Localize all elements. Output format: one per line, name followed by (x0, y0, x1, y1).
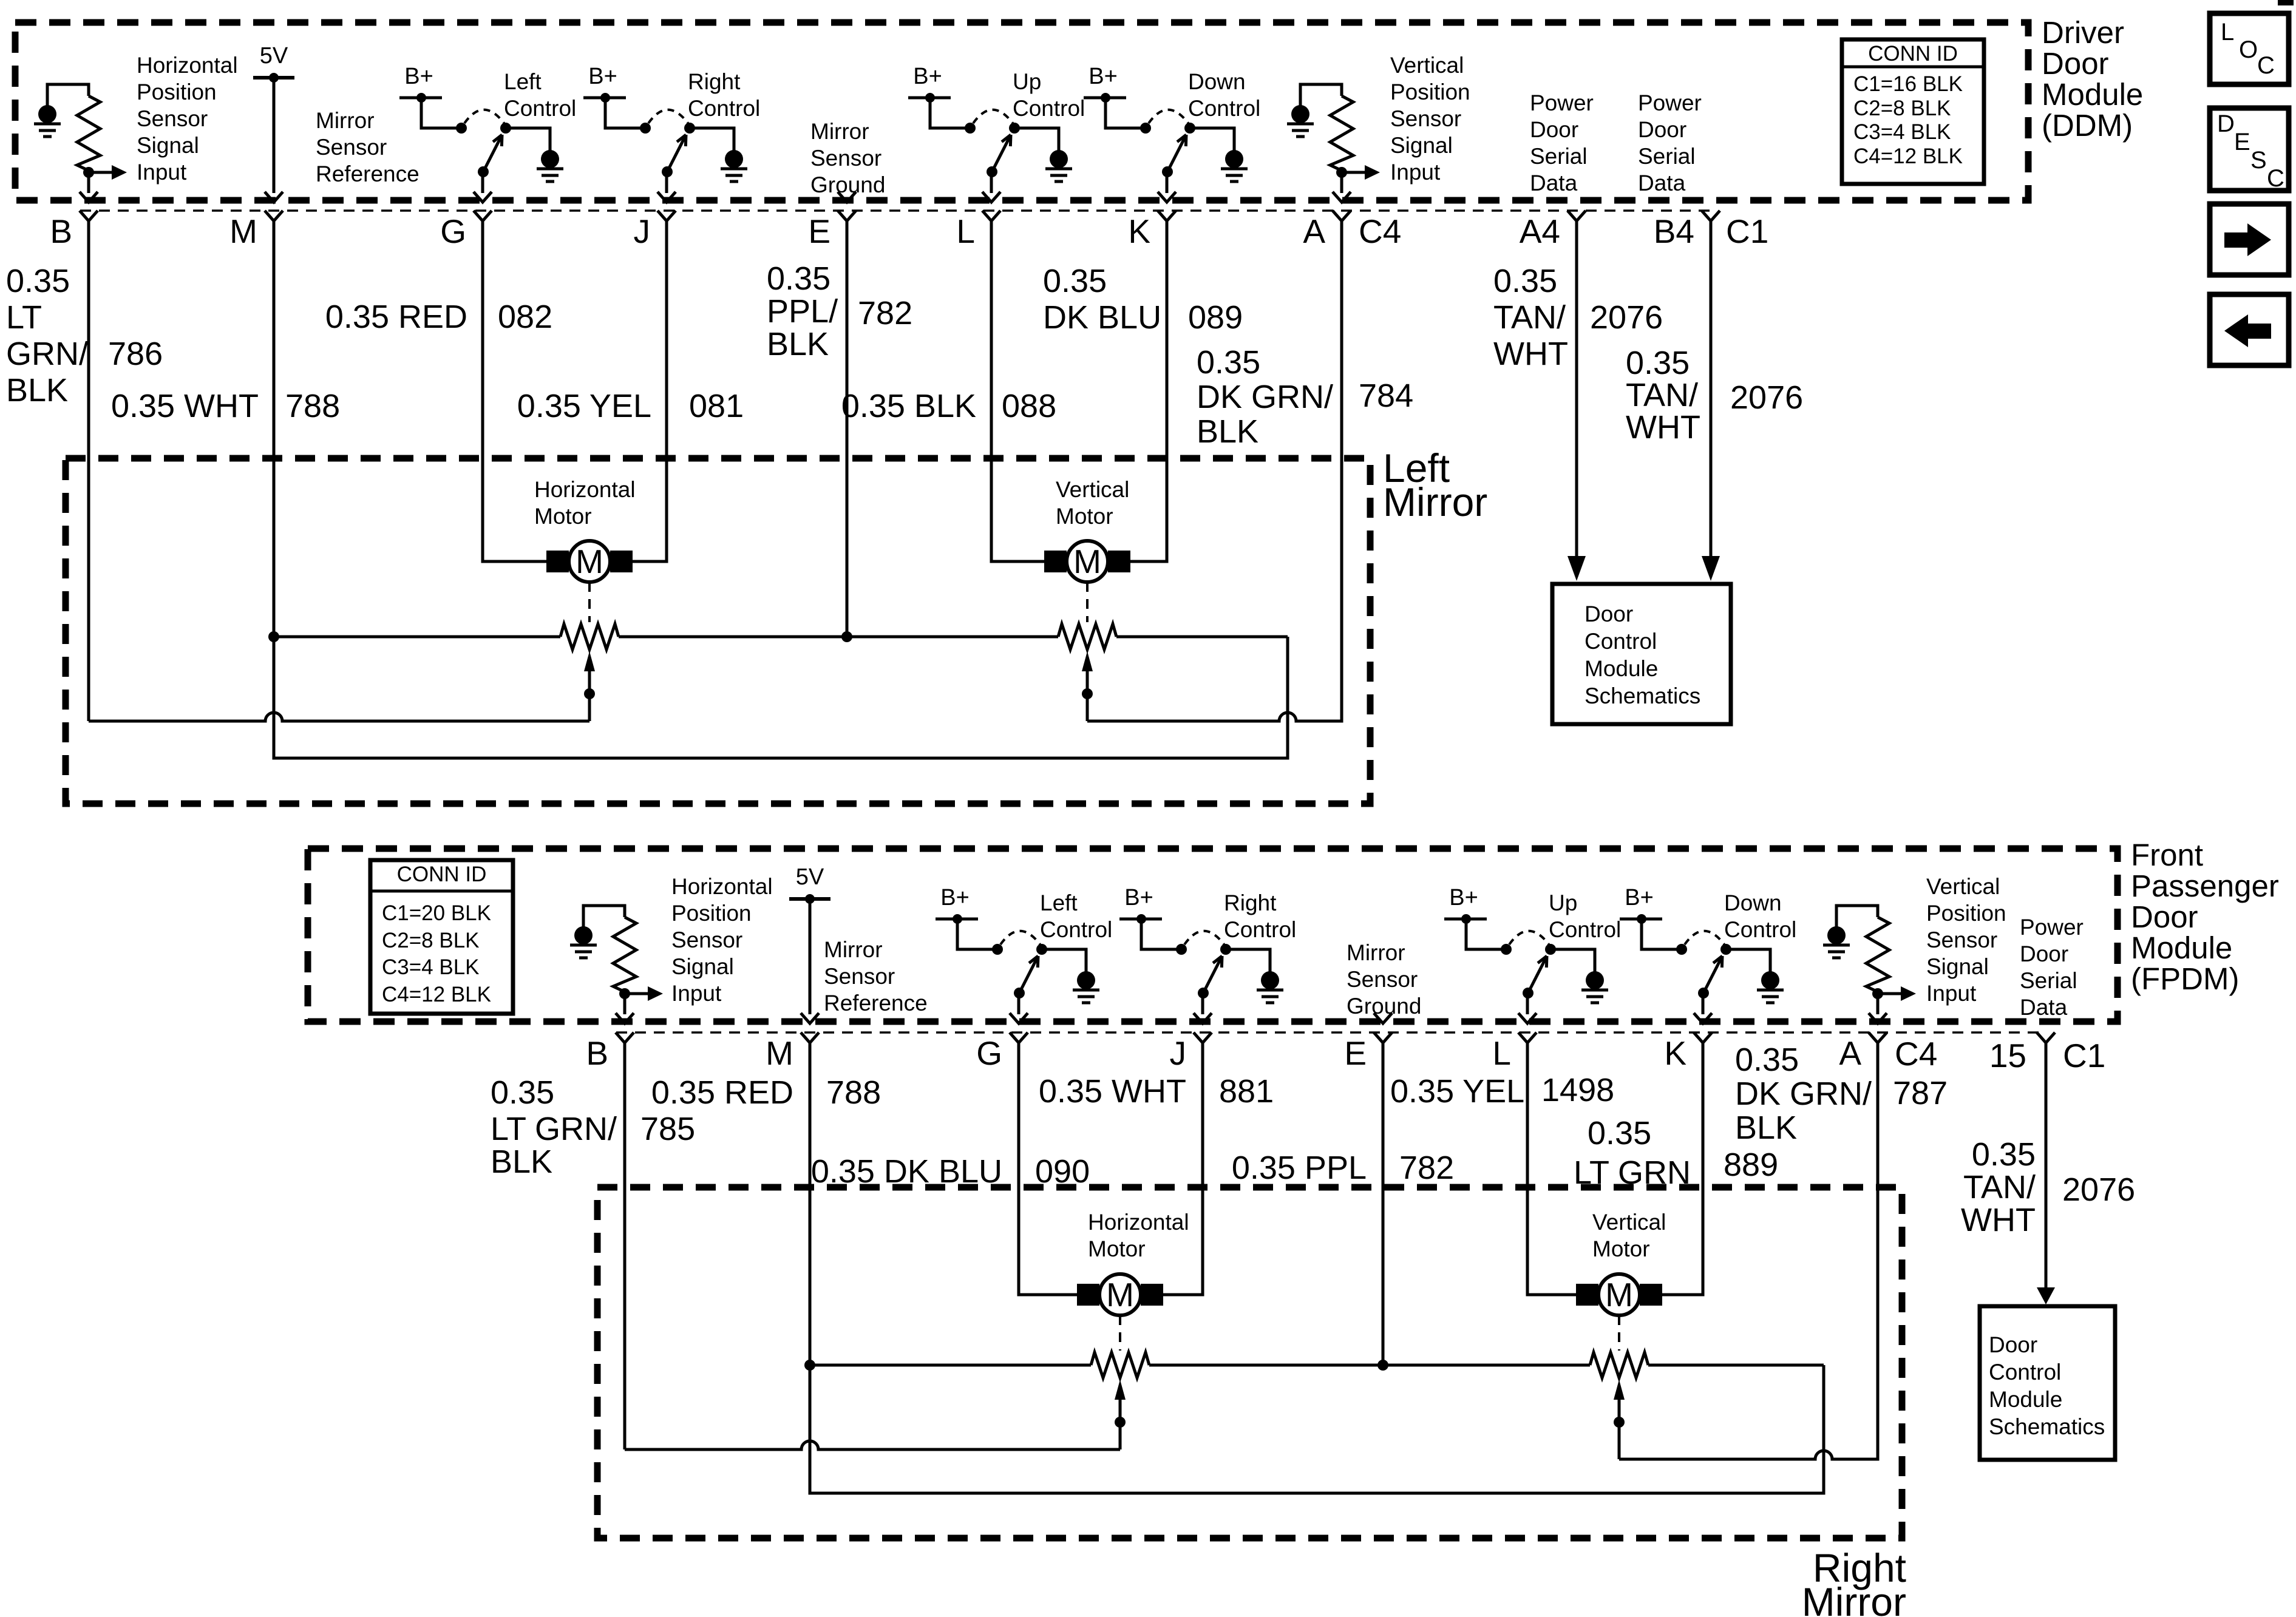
svg-text:B+: B+ (1124, 885, 1153, 910)
svg-text:0.35: 0.35 (1972, 1136, 2036, 1173)
svg-text:C1=20 BLK: C1=20 BLK (382, 901, 491, 925)
svg-text:Left: Left (1040, 890, 1078, 915)
svg-text:DK GRN/: DK GRN/ (1735, 1076, 1872, 1112)
svg-text:Motor: Motor (1056, 504, 1113, 529)
svg-text:088: 088 (1002, 388, 1056, 424)
svg-text:C1=16 BLK: C1=16 BLK (1853, 72, 1963, 96)
svg-text:Module: Module (1989, 1387, 2062, 1412)
svg-text:A: A (1839, 1034, 1861, 1072)
svg-text:G: G (976, 1034, 1002, 1072)
svg-text:0.35: 0.35 (1197, 344, 1260, 381)
svg-text:C4=12 BLK: C4=12 BLK (1853, 144, 1963, 168)
svg-text:Down: Down (1724, 890, 1782, 915)
svg-text:Door: Door (1530, 117, 1578, 142)
svg-text:E: E (2234, 129, 2250, 155)
svg-text:(FPDM): (FPDM) (2131, 961, 2239, 996)
svg-text:CONN ID: CONN ID (397, 863, 487, 886)
svg-text:M: M (1073, 543, 1101, 580)
svg-text:Mirror: Mirror (810, 119, 869, 144)
svg-text:C: C (2267, 165, 2284, 192)
svg-text:K: K (1128, 212, 1150, 250)
svg-text:0.35: 0.35 (1493, 263, 1557, 299)
svg-text:Serial: Serial (2020, 968, 2077, 993)
svg-text:GRN/: GRN/ (6, 336, 88, 372)
svg-text:089: 089 (1188, 299, 1243, 336)
svg-text:M: M (576, 543, 603, 580)
svg-text:WHT: WHT (1493, 336, 1568, 372)
svg-text:0.35 WHT: 0.35 WHT (111, 388, 259, 424)
svg-text:Position: Position (1390, 80, 1470, 104)
svg-text:Sensor: Sensor (137, 106, 208, 131)
svg-text:0.35 YEL: 0.35 YEL (1390, 1073, 1524, 1110)
svg-text:B+: B+ (940, 885, 970, 910)
svg-text:L: L (1492, 1034, 1511, 1072)
svg-text:Control: Control (1584, 629, 1657, 654)
svg-text:Input: Input (1390, 160, 1441, 185)
svg-text:L: L (956, 212, 975, 250)
svg-text:Control: Control (1549, 917, 1621, 942)
svg-text:C1: C1 (1726, 212, 1768, 250)
svg-text:Horizontal: Horizontal (671, 874, 773, 899)
svg-text:B+: B+ (404, 64, 433, 89)
svg-text:Passenger: Passenger (2131, 869, 2279, 903)
svg-text:O: O (2239, 36, 2258, 63)
svg-text:B: B (586, 1034, 608, 1072)
svg-text:Right: Right (1224, 890, 1277, 915)
svg-text:782: 782 (858, 295, 912, 331)
svg-text:DK GRN/: DK GRN/ (1197, 379, 1333, 415)
svg-text:082: 082 (498, 299, 552, 335)
svg-text:Position: Position (671, 901, 752, 926)
svg-text:D: D (2217, 110, 2235, 137)
svg-text:C3=4 BLK: C3=4 BLK (382, 955, 480, 979)
svg-text:Door: Door (2020, 941, 2068, 966)
svg-text:Schematics: Schematics (1584, 683, 1700, 708)
svg-text:Vertical: Vertical (1056, 477, 1129, 502)
svg-text:Input: Input (1926, 981, 1977, 1006)
svg-text:Control: Control (1013, 96, 1085, 121)
svg-text:L: L (2221, 19, 2234, 46)
svg-text:Data: Data (2020, 995, 2068, 1020)
svg-text:Door: Door (1638, 117, 1686, 142)
svg-text:Sensor: Sensor (316, 135, 387, 160)
svg-text:Mirror: Mirror (824, 937, 883, 962)
svg-text:Driver: Driver (2042, 15, 2124, 50)
svg-text:J: J (1170, 1034, 1187, 1072)
svg-text:Up: Up (1549, 890, 1577, 915)
svg-text:0.35: 0.35 (1588, 1115, 1651, 1151)
svg-text:B+: B+ (913, 64, 942, 89)
svg-text:Power: Power (2020, 915, 2084, 940)
svg-text:Position: Position (1926, 901, 2006, 926)
svg-text:787: 787 (1893, 1075, 1948, 1111)
svg-text:C3=4 BLK: C3=4 BLK (1853, 120, 1951, 144)
svg-text:Control: Control (1724, 917, 1796, 942)
svg-text:Serial: Serial (1638, 144, 1696, 169)
svg-text:M: M (1106, 1276, 1134, 1314)
svg-text:Vertical: Vertical (1926, 874, 2000, 899)
svg-text:Module: Module (1584, 656, 1658, 681)
svg-text:Control: Control (1989, 1360, 2061, 1385)
svg-text:C2=8 BLK: C2=8 BLK (382, 929, 480, 952)
svg-text:Mirror: Mirror (316, 108, 375, 133)
svg-text:LT: LT (6, 299, 42, 336)
svg-text:Ground: Ground (810, 172, 885, 197)
svg-text:E: E (808, 212, 830, 250)
svg-text:Sensor: Sensor (1926, 927, 1997, 952)
svg-text:BLK: BLK (1735, 1110, 1797, 1146)
svg-text:Down: Down (1188, 69, 1246, 94)
svg-text:Input: Input (137, 160, 187, 185)
svg-text:A4: A4 (1520, 212, 1560, 250)
svg-text:Sensor: Sensor (810, 146, 881, 171)
svg-text:Reference: Reference (316, 161, 419, 186)
svg-text:Data: Data (1638, 171, 1686, 195)
svg-text:889: 889 (1724, 1147, 1778, 1183)
svg-text:15: 15 (1989, 1037, 2026, 1074)
svg-text:Door: Door (2042, 46, 2109, 81)
svg-text:M: M (229, 212, 257, 250)
svg-text:Ground: Ground (1347, 994, 1421, 1019)
svg-text:TAN/: TAN/ (1963, 1169, 2036, 1205)
svg-text:Signal: Signal (1926, 954, 1989, 979)
svg-text:B: B (50, 212, 72, 250)
svg-text:C4=12 BLK: C4=12 BLK (382, 983, 491, 1006)
svg-text:Sensor: Sensor (1347, 967, 1418, 992)
svg-text:881: 881 (1219, 1073, 1274, 1110)
svg-text:Right: Right (688, 69, 741, 94)
svg-text:TAN/: TAN/ (1493, 299, 1566, 336)
svg-text:0.35 BLK: 0.35 BLK (841, 388, 976, 424)
svg-text:Mirror: Mirror (1347, 940, 1405, 965)
svg-text:Signal: Signal (1390, 133, 1453, 158)
svg-text:TAN/: TAN/ (1626, 377, 1698, 413)
svg-text:C4: C4 (1895, 1035, 1937, 1073)
svg-text:0.35: 0.35 (491, 1074, 554, 1111)
svg-text:5V: 5V (260, 43, 288, 69)
svg-text:Data: Data (1530, 171, 1578, 195)
svg-text:WHT: WHT (1961, 1202, 2036, 1238)
svg-text:Sensor: Sensor (671, 927, 742, 952)
svg-text:Module: Module (2131, 931, 2232, 965)
svg-text:CONN ID: CONN ID (1868, 42, 1958, 66)
svg-text:2076: 2076 (1590, 299, 1663, 336)
svg-text:0.35 YEL: 0.35 YEL (517, 388, 651, 424)
svg-text:Horizontal: Horizontal (534, 477, 636, 502)
svg-text:Sensor: Sensor (824, 964, 895, 989)
svg-text:Input: Input (671, 981, 722, 1006)
svg-text:0.35: 0.35 (767, 260, 830, 297)
svg-text:0.35 RED: 0.35 RED (651, 1074, 793, 1111)
svg-text:5V: 5V (796, 864, 824, 890)
svg-text:Up: Up (1013, 69, 1041, 94)
svg-text:B4: B4 (1654, 212, 1694, 250)
svg-text:Power: Power (1530, 90, 1594, 115)
svg-text:Vertical: Vertical (1592, 1210, 1666, 1235)
svg-text:C: C (2257, 52, 2275, 79)
svg-text:(DDM): (DDM) (2042, 108, 2133, 143)
svg-text:Motor: Motor (534, 504, 592, 529)
svg-text:G: G (440, 212, 466, 250)
svg-text:Signal: Signal (671, 954, 734, 979)
svg-text:788: 788 (826, 1074, 881, 1111)
svg-text:DK BLU: DK BLU (1043, 299, 1161, 336)
svg-text:BLK: BLK (6, 372, 68, 408)
svg-text:Left: Left (504, 69, 542, 94)
svg-text:Door: Door (1584, 602, 1633, 626)
svg-text:Motor: Motor (1088, 1236, 1146, 1261)
svg-text:BLK: BLK (767, 326, 829, 362)
svg-text:Schematics: Schematics (1989, 1414, 2105, 1439)
svg-text:0.35: 0.35 (1735, 1042, 1799, 1078)
svg-text:0.35 PPL: 0.35 PPL (1232, 1150, 1367, 1186)
svg-text:C1: C1 (2063, 1037, 2105, 1074)
svg-text:0.35 RED: 0.35 RED (325, 299, 467, 335)
svg-text:2076: 2076 (2062, 1171, 2135, 1208)
svg-text:J: J (634, 212, 651, 250)
svg-text:Control: Control (1040, 917, 1112, 942)
svg-text:Control: Control (1188, 96, 1260, 121)
svg-text:081: 081 (689, 388, 744, 424)
svg-text:M: M (1605, 1276, 1633, 1314)
svg-text:LT GRN/: LT GRN/ (491, 1111, 617, 1147)
svg-text:B+: B+ (1449, 885, 1478, 910)
svg-text:S: S (2250, 147, 2267, 174)
svg-text:B+: B+ (1625, 885, 1654, 910)
svg-text:Power: Power (1638, 90, 1702, 115)
svg-text:784: 784 (1359, 378, 1413, 414)
svg-text:0.35 WHT: 0.35 WHT (1039, 1073, 1186, 1110)
svg-text:Control: Control (504, 96, 576, 121)
svg-text:Horizontal: Horizontal (137, 53, 238, 78)
svg-text:Vertical: Vertical (1390, 53, 1464, 78)
svg-text:Horizontal: Horizontal (1088, 1210, 1189, 1235)
svg-text:E: E (1344, 1034, 1367, 1072)
svg-text:0.35: 0.35 (1043, 263, 1107, 299)
svg-text:Mirror: Mirror (1383, 480, 1487, 524)
svg-text:786: 786 (108, 336, 163, 372)
svg-text:0.35: 0.35 (6, 263, 70, 299)
svg-text:1498: 1498 (1541, 1072, 1614, 1108)
svg-text:Control: Control (688, 96, 760, 121)
svg-text:2076: 2076 (1730, 379, 1803, 416)
svg-text:Sensor: Sensor (1390, 106, 1461, 131)
svg-text:B+: B+ (588, 64, 617, 89)
svg-text:BLK: BLK (1197, 413, 1258, 450)
svg-text:BLK: BLK (491, 1144, 552, 1180)
svg-text:PPL/: PPL/ (767, 293, 838, 330)
svg-text:C4: C4 (1359, 212, 1401, 250)
svg-text:Module: Module (2042, 77, 2143, 112)
svg-text:Signal: Signal (137, 133, 199, 158)
svg-text:788: 788 (285, 388, 340, 424)
svg-text:C2=8 BLK: C2=8 BLK (1853, 97, 1951, 120)
svg-text:785: 785 (640, 1111, 695, 1147)
svg-text:Door: Door (2131, 900, 2198, 934)
svg-text:M: M (766, 1034, 793, 1072)
svg-text:K: K (1664, 1034, 1686, 1072)
svg-text:Position: Position (137, 80, 217, 104)
svg-text:A: A (1303, 212, 1325, 250)
svg-text:WHT: WHT (1626, 409, 1700, 446)
svg-text:Reference: Reference (824, 991, 928, 1015)
svg-text:B+: B+ (1089, 64, 1118, 89)
svg-text:782: 782 (1399, 1150, 1454, 1186)
svg-text:Serial: Serial (1530, 144, 1588, 169)
svg-text:0.35: 0.35 (1626, 345, 1690, 381)
svg-text:Mirror: Mirror (1802, 1579, 1906, 1617)
svg-text:Motor: Motor (1592, 1236, 1650, 1261)
svg-text:Front: Front (2131, 838, 2203, 872)
svg-text:Door: Door (1989, 1332, 2037, 1357)
svg-text:Control: Control (1224, 917, 1296, 942)
